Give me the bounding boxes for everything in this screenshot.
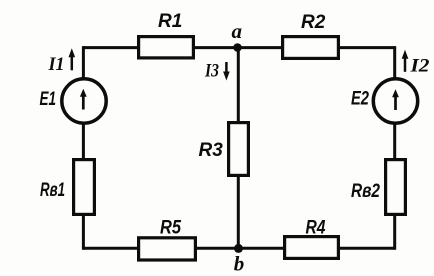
resistor R1 [139,11,194,58]
svg-text:Rв2: Rв2 [351,181,380,202]
wire: bottom horizontal (left branch to right branch) [83,247,394,250]
node a [232,19,243,52]
svg-text:R2: R2 [301,12,326,33]
svg-text:E2: E2 [351,89,369,110]
resistor R5 [139,218,196,261]
wire: right branch vertical [393,46,396,250]
wire: left branch vertical [82,46,85,250]
svg-text:Rв1: Rв1 [40,180,65,201]
svg-text:R5: R5 [160,218,181,239]
current arrow I2 [402,50,430,77]
svg-text:I1: I1 [48,54,65,75]
svg-text:b: b [234,252,245,276]
resistor Rв2 [351,160,405,215]
svg-text:R3: R3 [199,140,224,161]
current arrow I1 [48,48,76,75]
current source E1 [40,79,107,123]
current arrow I3 [204,61,230,82]
svg-text:R4: R4 [306,218,326,239]
svg-text:a: a [232,19,243,43]
svg-text:R1: R1 [158,11,182,32]
wire: middle branch vertical (node a to node b) [237,48,240,249]
resistor R4 [285,218,339,259]
svg-text:I3: I3 [204,61,219,82]
node b [234,244,245,276]
svg-text:I2: I2 [409,56,430,77]
current source E2 [351,79,418,123]
wire: top horizontal (left branch to right branch) [83,46,394,49]
svg-text:E1: E1 [40,89,57,110]
resistor R2 [283,12,339,58]
resistor Rв1 [40,160,94,215]
resistor R3 [199,123,249,176]
